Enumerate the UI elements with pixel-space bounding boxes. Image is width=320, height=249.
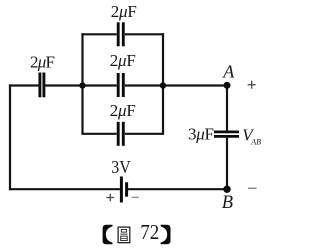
wire: top branch right segment [125,33,164,35]
polarity plus sign at node A right [248,81,256,89]
wire: parallel box left vertical lower [81,86,83,134]
wire: parallel box left vertical upper [81,33,83,85]
wire: parallel box right vertical lower [162,86,164,134]
battery BT1 3V short plate [125,182,128,196]
capacitor C2 2uF top plates [118,22,123,46]
caption character tu (figure) drawn [118,227,130,243]
wire: right vertical from node A to C5 [226,84,228,130]
svg-text:A: A [222,62,235,82]
svg-text:2μF: 2μF [30,52,55,71]
wire: parallel box right vertical upper [162,33,164,85]
wire: left vertical from middle rail to bottom rail [9,84,11,190]
caption left lenticular bracket [103,225,113,245]
wire: bottom branch right segment [125,133,164,135]
polarity plus sign near battery [107,194,115,202]
wire: bottom branch left segment [81,133,116,135]
polarity minus sign at node B right [248,187,257,189]
node A dot [224,82,231,89]
node B dot [223,186,230,193]
svg-text:3μF: 3μF [188,125,214,144]
svg-text:2μF: 2μF [111,2,137,21]
svg-text:AB: AB [250,137,261,146]
wire: middle rail from C1 to C3 [45,84,116,86]
wire: right vertical from C5 to node B [226,138,228,191]
battery BT1 3V long plate [120,177,123,203]
svg-text:2μF: 2μF [110,51,136,70]
wire: bottom rail from left to battery [9,188,120,190]
wire: bottom rail from battery to node B [128,188,228,190]
svg-text:B: B [222,193,233,213]
caption right lenticular bracket [161,225,171,245]
capacitor C3 2uF middle plates [118,73,123,97]
capacitor C5 3uF horizontal plates [214,132,239,137]
wire: middle rail left segment to C1 [9,84,39,86]
svg-text:2μF: 2μF [110,101,136,120]
polarity minus sign near battery [132,196,139,198]
svg-text:72: 72 [140,220,159,244]
capacitor C1 2uF left plates [40,73,44,98]
capacitor C4 2uF bottom plates [118,122,123,146]
node junction dot at box right [160,82,166,88]
wire: top branch left segment [81,33,116,35]
wire: middle rail from C3 to node A [125,84,227,86]
node junction dot at box left [79,82,85,88]
svg-text:3V: 3V [111,157,131,177]
